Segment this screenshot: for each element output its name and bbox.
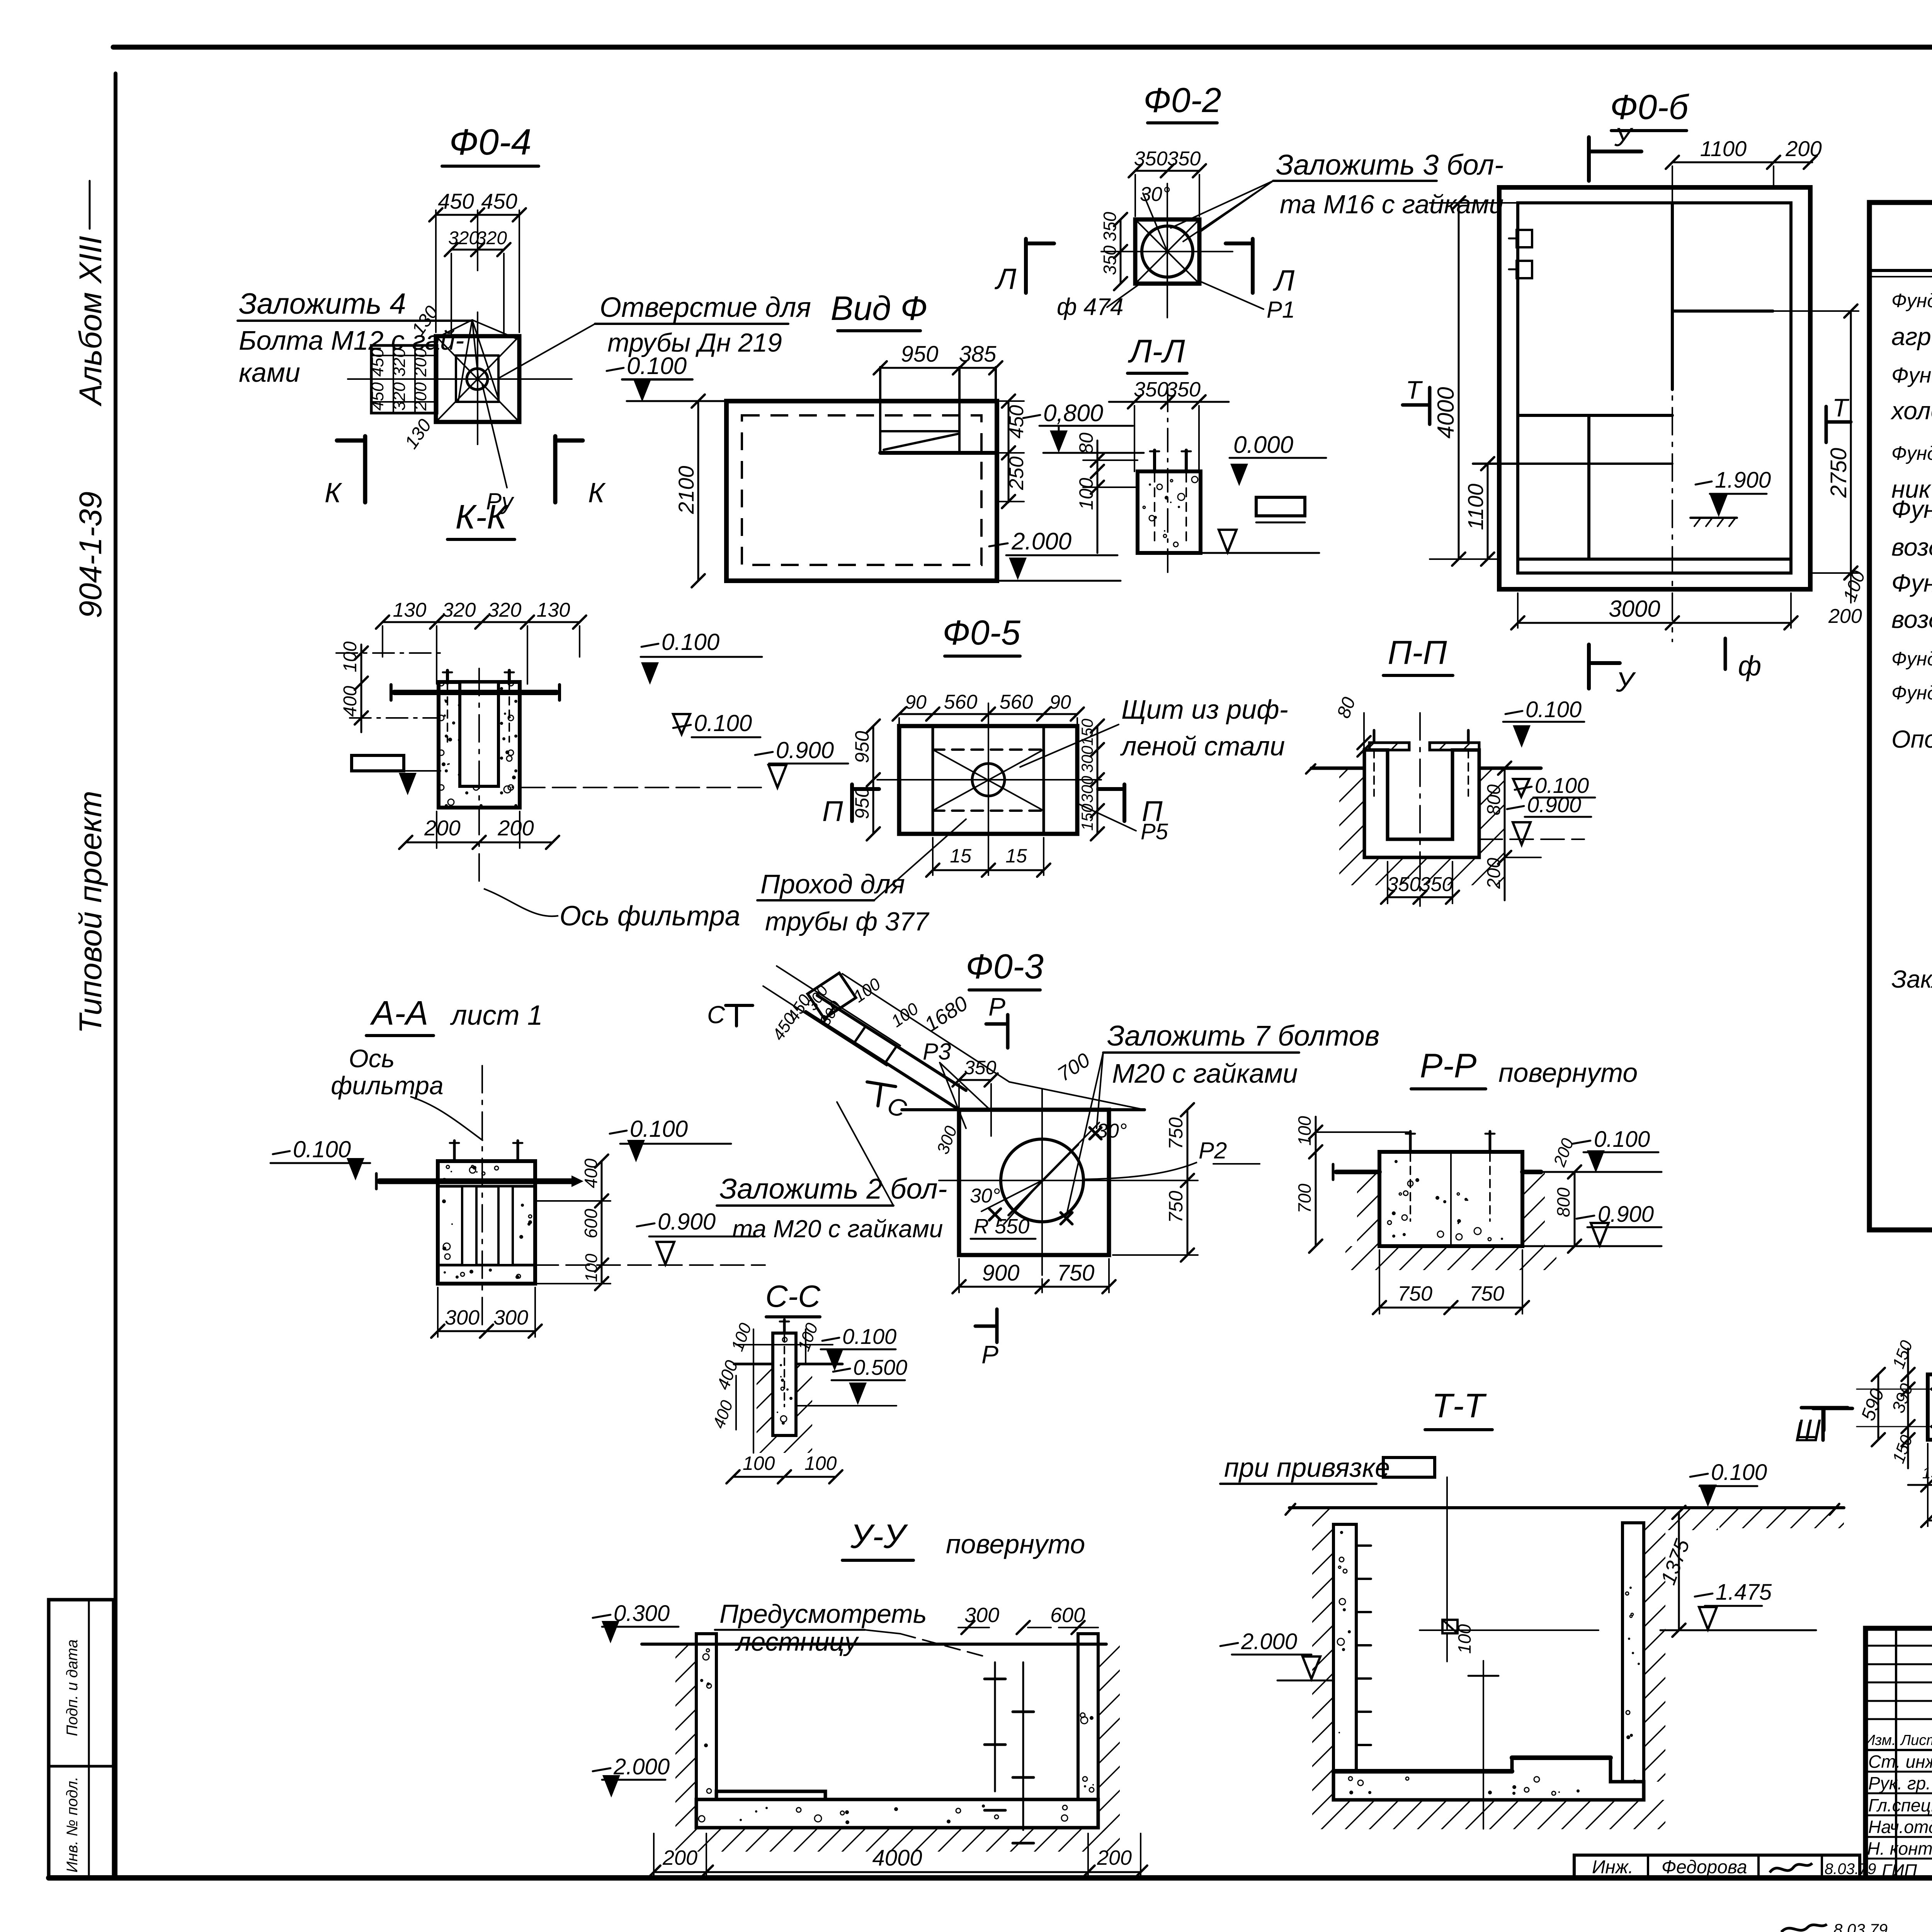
svg-text:Заложить 7 болтов: Заложить 7 болтов <box>1107 1020 1379 1052</box>
svg-text:200: 200 <box>424 816 460 840</box>
bottom strip Инж. Федорова <box>1574 1855 1876 1878</box>
svg-text:Вид Ф: Вид Ф <box>831 289 928 327</box>
L-L anchor bolts <box>1150 450 1191 543</box>
A-A centerline <box>481 1066 483 1326</box>
A-A top anchor pins <box>450 1141 522 1161</box>
L-L pad rectangle right <box>1256 497 1305 516</box>
svg-text:С: С <box>707 1001 725 1029</box>
sign table empty row lines <box>1866 1646 1932 1719</box>
svg-text:Подп. и дата: Подп. и дата <box>64 1639 81 1736</box>
T-T ground end ticks <box>1286 1504 1839 1515</box>
level -0.900 (K-K) <box>522 737 848 787</box>
svg-text:ф 474: ф 474 <box>1057 294 1123 320</box>
P-P top flanges <box>1369 743 1479 750</box>
svg-text:при привязке: при привязке <box>1224 1452 1390 1483</box>
svg-text:Т-Т: Т-Т <box>1432 1386 1487 1425</box>
svg-text:0.100: 0.100 <box>1594 1127 1650 1152</box>
section title Т-Т <box>1425 1386 1492 1430</box>
svg-text:0.100: 0.100 <box>1711 1460 1767 1485</box>
svg-text:750: 750 <box>1165 1190 1187 1223</box>
C-C ground and hatch <box>734 1364 842 1453</box>
svg-text:100: 100 <box>1075 478 1097 510</box>
svg-text:100: 100 <box>582 1253 601 1282</box>
P4 label <box>482 384 515 514</box>
table row 20 <box>1891 964 1932 993</box>
svg-text:0.100: 0.100 <box>1526 697 1582 722</box>
svg-text:Фундамент под компрессорны: Фундамент под компрессорный <box>1891 290 1932 311</box>
svg-text:1100: 1100 <box>1463 484 1488 530</box>
T-T right wall <box>1622 1523 1644 1782</box>
svg-text:90: 90 <box>905 691 927 713</box>
R-R bottom dims 750 750 <box>1373 1250 1529 1314</box>
table row 9 <box>1891 569 1932 597</box>
svg-text:Ось фильтра: Ось фильтра <box>560 901 740 932</box>
svg-text:Л: Л <box>994 263 1017 296</box>
svg-text:300: 300 <box>964 1604 999 1627</box>
svg-text:Фундамент под концевой: Фундамент под концевой <box>1891 363 1932 387</box>
FO-7 left dims 590 150 390 150 <box>1857 1338 1917 1468</box>
level mark -2.000 (vid F) <box>989 528 1121 581</box>
svg-text:лист 1: лист 1 <box>450 1000 543 1031</box>
svg-text:8.03.79: 8.03.79 <box>1833 1920 1888 1932</box>
sign table row ГИП Леонов <box>1882 1861 1932 1881</box>
svg-text:Фундамент под фильтр: Фундамент под фильтр <box>1891 569 1932 597</box>
C-C bottom dims 100 100 <box>709 1398 842 1483</box>
svg-text:385: 385 <box>959 342 997 367</box>
svg-text:400: 400 <box>581 1158 601 1188</box>
svg-text:200: 200 <box>662 1846 697 1869</box>
FO-5 right dims 150 300 300 150 <box>1078 718 1104 840</box>
svg-text:30°: 30° <box>1140 183 1170 206</box>
FO-4 dim 130 bottom-left <box>401 415 436 452</box>
svg-text:фильтра: фильтра <box>331 1071 443 1100</box>
table row 10 <box>1891 605 1932 633</box>
vid F left dim 2100 <box>674 395 705 587</box>
svg-text:100: 100 <box>804 1452 837 1474</box>
svg-text:агрегат 305 ВП 20/8: агрегат 305 ВП 20/8 <box>1891 323 1932 350</box>
section mark Л left <box>994 239 1054 296</box>
level -0.100 (A-A) <box>270 1136 370 1180</box>
svg-text:200: 200 <box>1097 1846 1132 1869</box>
FO-6 centerline <box>1672 176 1673 641</box>
K-K pipe bar <box>391 685 560 700</box>
below-frame note 8.03.79 <box>1781 1920 1888 1932</box>
K-K bottom dims 200 200 <box>399 811 559 849</box>
svg-text:воздушный: воздушный <box>1891 605 1932 633</box>
svg-text:Закладной элемент: Закладной элемент <box>1891 965 1932 993</box>
svg-text:трубы ф 377: трубы ф 377 <box>765 907 929 936</box>
R-R anchor bolts <box>1406 1131 1495 1221</box>
drawing title ФО-3 <box>966 947 1044 990</box>
svg-text:Проход для: Проход для <box>760 869 905 899</box>
table row 7 <box>1891 495 1932 523</box>
bottom-left archive stamp box <box>49 1600 114 1878</box>
svg-text:350: 350 <box>1167 148 1201 170</box>
FO-7 bolt axes <box>1857 1365 1932 1454</box>
svg-text:ф: ф <box>1738 651 1761 682</box>
svg-text:100: 100 <box>340 641 361 672</box>
svg-text:350: 350 <box>964 1057 997 1078</box>
leader lines to FO-4 bolts <box>437 320 518 401</box>
svg-text:Р1: Р1 <box>1267 297 1295 323</box>
svg-text:350: 350 <box>1134 378 1168 401</box>
FO-4 top dim 450 450 <box>429 189 526 332</box>
svg-text:та М20 с гайками: та М20 с гайками <box>732 1215 943 1243</box>
note Заложить 2 болта М20 с гайками <box>717 1102 947 1243</box>
FO-6 section mark У top <box>1589 122 1641 181</box>
svg-text:320: 320 <box>448 228 479 248</box>
T-T outer hatch <box>1312 1508 1844 1829</box>
svg-text:С-С: С-С <box>765 1279 821 1313</box>
svg-text:Нач.отд.: Нач.отд. <box>1868 1817 1932 1837</box>
svg-text:100: 100 <box>1294 1116 1315 1146</box>
svg-text:У: У <box>1614 122 1634 152</box>
svg-text:900: 900 <box>982 1260 1020 1286</box>
svg-text:300: 300 <box>445 1306 480 1329</box>
FO-3 dim 350 top <box>952 1057 998 1136</box>
svg-text:100: 100 <box>1454 1624 1475 1654</box>
FO-6 inner partition lines <box>1473 203 1791 559</box>
table row 4 <box>1890 396 1932 425</box>
T-T bottom slab <box>1333 1758 1644 1800</box>
U-U dims 300 600 <box>958 1604 1098 1634</box>
svg-text:Р: Р <box>988 992 1005 1021</box>
table row 3 <box>1891 363 1932 387</box>
svg-text:Ш: Ш <box>1796 1414 1821 1444</box>
P-P bottom dims 350 350 <box>1381 862 1459 904</box>
svg-text:560: 560 <box>1000 691 1033 713</box>
svg-text:Лист: Лист <box>1900 1732 1932 1748</box>
svg-text:2.000: 2.000 <box>613 1754 670 1779</box>
svg-text:Заложить 2 бол-: Заложить 2 бол- <box>719 1173 947 1205</box>
svg-text:0.100: 0.100 <box>694 710 752 736</box>
svg-text:Р5: Р5 <box>1141 819 1168 844</box>
svg-text:Л: Л <box>1272 264 1295 297</box>
level -0.300 (U-U) <box>593 1601 679 1643</box>
FO-3 angled dim fan <box>763 966 922 1066</box>
L-L centerline <box>1167 388 1168 579</box>
FO-7 bottom dim 1120 <box>1921 1444 1932 1527</box>
svg-text:П: П <box>822 795 843 827</box>
svg-text:Фундамент под фильтр: Фундамент под фильтр <box>1891 495 1932 523</box>
table row 11 <box>1891 642 1932 671</box>
section title С-С <box>765 1279 821 1317</box>
svg-text:Федорова: Федорова <box>1662 1857 1747 1878</box>
note при привязке <box>1220 1452 1435 1484</box>
svg-text:750: 750 <box>1398 1282 1432 1305</box>
svg-text:15: 15 <box>950 845 971 867</box>
svg-text:Фундамент под возбудительный: Фундамент под возбудительный агрегат <box>1891 682 1932 704</box>
T-T dim 100 <box>1454 1624 1498 1829</box>
sheet border top line <box>113 45 1932 50</box>
note Отверстие для трубы Дн 219 <box>499 292 811 378</box>
K-K pad rectangle <box>352 755 404 771</box>
U-U bottom slab <box>696 1791 1098 1828</box>
K-K left level triangle <box>361 771 440 795</box>
svg-text:350: 350 <box>1100 212 1120 241</box>
svg-text:90: 90 <box>1049 691 1071 713</box>
FO-2 angle 30 deg <box>1140 183 1170 252</box>
sign table row Рук.гр. Тоболова <box>1868 1773 1932 1794</box>
FO-3 radius R550 <box>971 1180 1042 1239</box>
P-P U-section walls <box>1364 750 1479 857</box>
svg-text:450: 450 <box>1005 405 1028 439</box>
svg-text:лестницу: лестницу <box>735 1627 859 1656</box>
svg-text:Р-Р: Р-Р <box>1420 1046 1477 1085</box>
svg-text:450: 450 <box>438 189 474 213</box>
svg-text:0.900: 0.900 <box>658 1209 716 1235</box>
svg-text:300: 300 <box>493 1306 528 1329</box>
svg-text:Ст. инж.: Ст. инж. <box>1868 1752 1932 1772</box>
note Ось фильтра (K-K) <box>484 889 740 932</box>
svg-text:Ф0-б: Ф0-б <box>1610 88 1690 127</box>
svg-text:450: 450 <box>368 382 387 411</box>
P5 label <box>1078 804 1168 844</box>
note ф 474 <box>1057 285 1138 320</box>
svg-text:904-1-39: 904-1-39 <box>73 492 108 618</box>
section title Л-Л <box>1128 333 1187 373</box>
FO-2 centerlines <box>1101 184 1233 318</box>
FO-3 angled dim 1680 <box>842 974 1009 1082</box>
drawing title ФО-6 <box>1610 88 1690 131</box>
level 0.100 (A-A) <box>610 1116 731 1162</box>
R-R ground hatch <box>1345 1172 1556 1270</box>
sign table row Н.контр. Рогошкина <box>1867 1838 1932 1859</box>
K-K centerline <box>478 668 480 889</box>
FO-3 angled strip <box>806 973 966 1110</box>
vid F dashed inner rectangle <box>742 415 981 565</box>
table row 1 <box>1891 290 1932 311</box>
level mark 0.000 <box>1230 432 1326 486</box>
svg-text:К-К: К-К <box>455 498 508 536</box>
svg-text:250: 250 <box>1005 456 1028 490</box>
svg-text:950: 950 <box>851 787 873 819</box>
svg-text:0.900: 0.900 <box>776 737 834 763</box>
svg-text:950: 950 <box>851 731 873 763</box>
vid F right dim 450 250 <box>997 395 1028 508</box>
FO-6 section mark Т right <box>1826 393 1851 442</box>
R-R side bars <box>1333 1164 1541 1180</box>
svg-text:леной стали: леной стали <box>1120 731 1285 761</box>
P1 label <box>1202 282 1295 323</box>
svg-text:Инв. № подл.: Инв. № подл. <box>64 1777 81 1872</box>
table row 8 <box>1891 532 1932 561</box>
svg-text:0.100: 0.100 <box>662 629 719 655</box>
section mark Р bottom (FO-3) <box>975 1309 998 1369</box>
FO-6 left dim 1100 <box>1463 457 1494 566</box>
svg-text:2.000: 2.000 <box>1241 1629 1297 1654</box>
svg-text:0.100: 0.100 <box>630 1116 688 1142</box>
svg-text:Болта М12 с гай-: Болта М12 с гай- <box>239 325 464 355</box>
FO-3 right dims 750 750 <box>1113 1103 1198 1262</box>
K-K anchor pins <box>443 670 514 742</box>
T-T plumb leader and block <box>1420 1477 1599 1662</box>
svg-text:750: 750 <box>1057 1260 1095 1286</box>
svg-text:Заложить 4: Заложить 4 <box>239 287 406 320</box>
P-P ground hatch <box>1339 768 1504 885</box>
svg-text:ками: ками <box>239 357 300 388</box>
note Заложить 7 болтов М20 с гайками <box>1066 1020 1379 1215</box>
svg-text:4000: 4000 <box>1433 387 1459 439</box>
svg-text:350: 350 <box>1420 873 1453 896</box>
vid F plan rectangle <box>726 401 997 581</box>
title block outer box <box>1866 1628 1932 1878</box>
C-C upper dims 100 100 <box>728 1320 833 1453</box>
FO-3 angle 30deg upper <box>1042 1120 1127 1180</box>
svg-text:8.03.79: 8.03.79 <box>1825 1861 1876 1878</box>
FO-6 bottom dim 3000 <box>1511 593 1798 629</box>
FO-6 left dim 4000 <box>1430 196 1518 566</box>
level -2.000 (U-U) <box>593 1754 670 1798</box>
FO-3 dim 300 left <box>933 1123 961 1156</box>
note Заложить 3 болта М16 с гайками <box>1171 149 1503 241</box>
svg-text:200: 200 <box>1785 136 1821 161</box>
section title Р-Р повернуто <box>1411 1046 1638 1089</box>
FO-5 top dim 90 560 560 90 <box>893 691 1084 724</box>
section title У-У повернуто <box>842 1517 1085 1560</box>
svg-text:Альбом XIII: Альбом XIII <box>73 236 108 407</box>
note Проход для трубы ф377 (FO-5) <box>757 819 966 936</box>
svg-text:Л-Л: Л-Л <box>1128 333 1185 369</box>
U-U outer hatch <box>675 1644 1120 1852</box>
svg-text:Типовой проект: Типовой проект <box>73 791 108 1034</box>
FO-6 section mark У bottom <box>1589 645 1636 698</box>
sign table row Ст.инж. Малыгина <box>1868 1752 1932 1772</box>
table row 5 <box>1891 439 1932 465</box>
sign table row Гл.спец. Преснов <box>1868 1795 1932 1816</box>
FO-5 circle and diagonals <box>877 703 1101 862</box>
svg-text:П-П: П-П <box>1388 634 1447 671</box>
FO-2 square outline <box>1135 219 1199 284</box>
section mark Ш left (FO-7) <box>1796 1408 1852 1444</box>
svg-text:повернуто: повернуто <box>1498 1058 1638 1088</box>
svg-text:600: 600 <box>1050 1604 1085 1627</box>
svg-text:Ф0-3: Ф0-3 <box>966 947 1044 986</box>
svg-text:750: 750 <box>1165 1117 1187 1150</box>
drawing title вид Ф <box>831 289 928 331</box>
R-R concrete block <box>1379 1152 1522 1246</box>
level -0.100 (K-K) <box>673 710 760 737</box>
section mark С-Т upper left <box>707 1001 753 1029</box>
svg-text:950: 950 <box>901 342 939 367</box>
svg-text:Ф0-2: Ф0-2 <box>1143 81 1221 120</box>
svg-text:Р: Р <box>981 1340 998 1369</box>
section mark Л right <box>1226 239 1295 297</box>
P-P anchor bolts <box>1374 730 1468 796</box>
T-T ground top line <box>1289 1506 1844 1509</box>
sign table header row <box>1864 1731 1932 1750</box>
vid F top notch with wedge <box>880 367 996 453</box>
svg-text:200: 200 <box>1828 605 1862 628</box>
FO-3 square outline <box>902 1110 1145 1255</box>
section mark П left (FO-5) <box>822 784 879 827</box>
FO-6 axis mark ф <box>1725 638 1761 682</box>
svg-text:3000: 3000 <box>1609 596 1660 622</box>
svg-text:0.100: 0.100 <box>293 1136 351 1162</box>
P3 label <box>923 1039 989 1128</box>
svg-text:Фундамент под продувочный бак: Фундамент под продувочный бак <box>1891 648 1932 670</box>
A-A right dims 400 600 100 <box>537 1155 611 1290</box>
svg-text:повернуто: повернуто <box>946 1529 1085 1559</box>
svg-text:Рук. гр.: Рук. гр. <box>1868 1773 1931 1793</box>
K-K concrete U-section <box>439 682 520 808</box>
T-T left wall <box>1333 1524 1356 1771</box>
L-L concrete block <box>1138 471 1201 553</box>
L-L left dims 80 100 <box>1075 432 1104 553</box>
FO-6 wall bolts <box>1509 230 1532 278</box>
U-U ground line <box>642 1643 1106 1646</box>
sign table row lines <box>1866 1772 1932 1859</box>
level -2.000 (T-T) <box>1220 1629 1333 1680</box>
FO-3 angled dim 700 <box>1009 1049 1145 1110</box>
svg-text:холодильник ХРК 9/8: холодильник ХРК 9/8 <box>1890 397 1932 425</box>
section mark K left <box>325 436 365 509</box>
sheet border bottom line <box>49 1875 1932 1881</box>
section title П-П <box>1383 634 1453 675</box>
level -0.100 (T-T) <box>1690 1460 1767 1507</box>
U-U bottom dims 200 4000 200 <box>647 1833 1147 1879</box>
FO-4 top dim 320 320 <box>445 228 510 336</box>
table row 13 <box>1891 724 1932 753</box>
FO-6 inner wall rectangle <box>1518 203 1791 573</box>
table row 2 <box>1891 322 1932 350</box>
level mark -0,800 <box>1023 400 1144 453</box>
section mark K right <box>555 436 606 509</box>
FO-2 anchor circle <box>1135 219 1199 284</box>
P-P right dim 800 <box>1484 762 1511 864</box>
T-T dim 1375 <box>1656 1506 1694 1637</box>
L-L left extension lines <box>1083 460 1138 487</box>
svg-text:4000: 4000 <box>872 1845 922 1871</box>
FO-6 top dim 1100 200 <box>1666 136 1822 185</box>
svg-text:Гл.спец.: Гл.спец. <box>1868 1795 1932 1815</box>
svg-text:К: К <box>588 478 606 509</box>
svg-text:та М16 с гайками: та М16 с гайками <box>1280 190 1503 219</box>
level -0.500 (C-C) <box>796 1355 907 1406</box>
FO-6 level 1.900 <box>1690 468 1771 526</box>
table row 6 <box>1891 474 1932 503</box>
section mark Р top (FO-3) <box>986 992 1008 1048</box>
vertical text: Типовой проект <box>73 791 108 1034</box>
svg-text:2100: 2100 <box>674 466 698 514</box>
svg-text:Н. контр.: Н. контр. <box>1867 1838 1932 1859</box>
R-R left dims 100 700 <box>1294 1116 1410 1253</box>
svg-text:30°: 30° <box>1097 1120 1127 1142</box>
svg-text:Ось: Ось <box>349 1044 395 1073</box>
svg-text:Р2: Р2 <box>1199 1138 1227 1163</box>
R-R right dim 800 <box>1553 1165 1581 1253</box>
svg-text:1.900: 1.900 <box>1715 468 1771 493</box>
drawing title ФО-2 <box>1143 81 1221 123</box>
svg-text:М20 с гайками: М20 с гайками <box>1112 1058 1298 1088</box>
P-P right dim 200 <box>1484 857 1541 900</box>
svg-text:15: 15 <box>1005 845 1027 867</box>
FO-4 dim 130 top-left <box>408 302 443 339</box>
FO-3 bolt marks on circle <box>989 1128 1101 1224</box>
svg-text:воздушный: воздушный <box>1891 533 1932 561</box>
table header underline <box>1869 270 1932 277</box>
level -0.100 (C-C) <box>821 1324 896 1371</box>
svg-text:350: 350 <box>1100 245 1120 275</box>
FO-6 right dim 2750 <box>1773 304 1859 580</box>
vid F dim 950 385 <box>874 342 1002 374</box>
svg-text:R 550: R 550 <box>974 1215 1029 1238</box>
sheet border left line <box>114 73 117 1878</box>
FO-2 top dim 350 350 <box>1129 148 1206 216</box>
note Предусмотреть лестницу <box>715 1599 989 1658</box>
C-C left dim 400 <box>713 1357 742 1430</box>
FO-3 bottom dims 900 750 <box>952 1259 1116 1293</box>
